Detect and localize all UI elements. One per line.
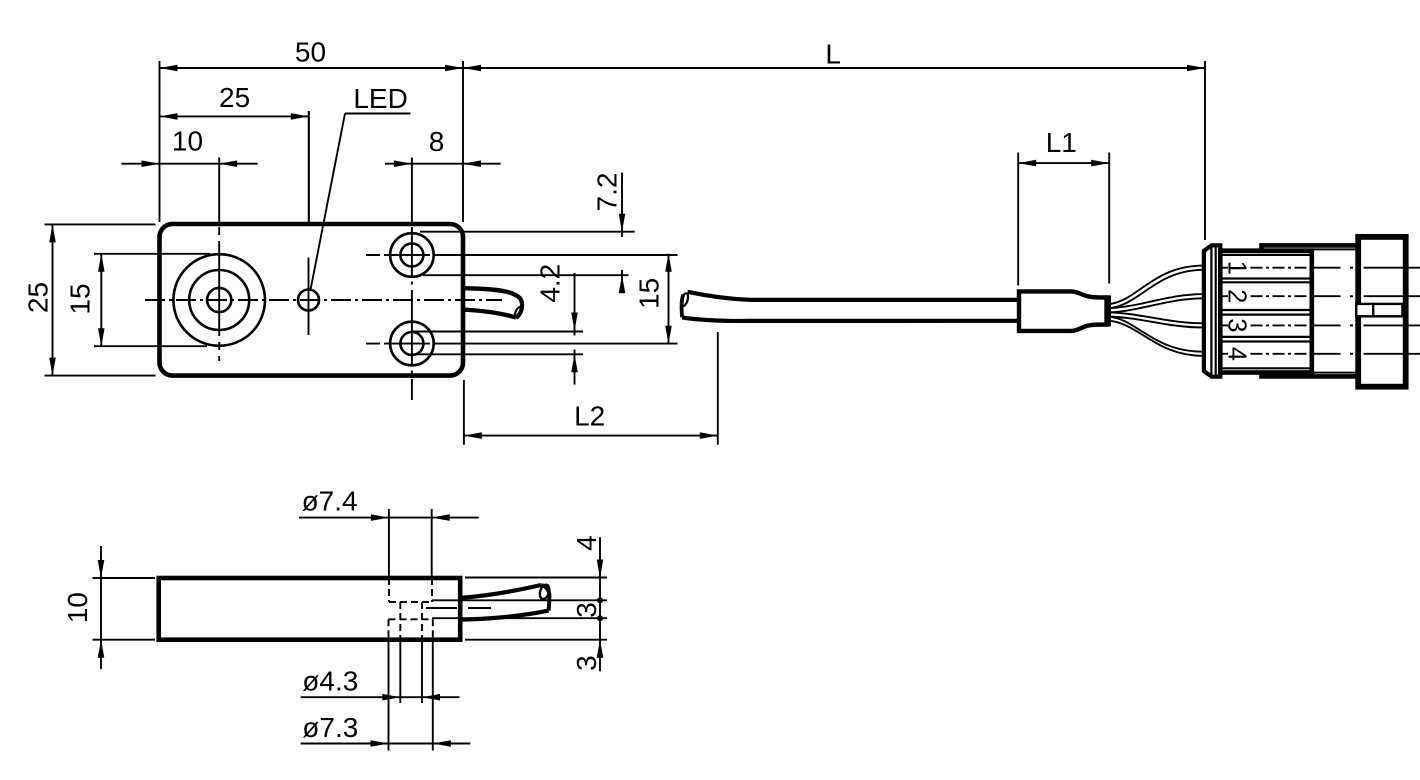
mid body top inner thin line (1263, 248, 1357, 250)
latch large rect (1373, 304, 1402, 316)
dimension 25 left (23, 224, 156, 375)
wire 4 (1108, 316, 1204, 351)
dimension 10 top (121, 126, 257, 167)
crimp ferrule body (1019, 291, 1107, 331)
cable left cut face ellipse (679, 292, 689, 307)
wire 2 (1108, 294, 1204, 308)
svg-text:ø7.3: ø7.3 (302, 712, 358, 743)
LED vertical centerline (308, 111, 310, 222)
extension line body right top (462, 61, 464, 222)
svg-text:L2: L2 (574, 401, 605, 432)
cable stub cut opening ellipse (514, 306, 524, 318)
svg-text:ø7.4: ø7.4 (302, 486, 358, 517)
hidden hole o4.3 left (399, 602, 401, 639)
pin separator 1b (1220, 281, 1311, 283)
pin 2 centerline (1222, 295, 1420, 297)
svg-text:L1: L1 (1046, 127, 1077, 158)
mid body bottom inner thin line (1312, 372, 1357, 374)
dimension 8 top (385, 126, 501, 167)
pin block top inner thin line (1220, 254, 1310, 256)
pin 1 centerline (1222, 267, 1420, 269)
dimension L1 (1018, 127, 1109, 285)
top hole lower tangent line (423, 274, 629, 276)
svg-text:10: 10 (62, 592, 93, 623)
side cable top edge (460, 585, 541, 598)
svg-text:ø4.3: ø4.3 (302, 666, 358, 697)
cable stub bottom edge (463, 310, 516, 318)
svg-text:8: 8 (429, 126, 445, 157)
svg-text:L: L (825, 38, 841, 69)
mounting hole top outer (390, 233, 434, 277)
hidden counterbore step upper (389, 601, 432, 603)
hidden hole o7.4 left (388, 578, 390, 602)
vertical centerline through holes (411, 158, 413, 223)
sensing face inner circle (207, 288, 231, 312)
top hole upper tangent line (420, 231, 635, 233)
svg-text:3: 3 (571, 655, 602, 671)
dimension L2 (464, 332, 718, 445)
cable top edge (688, 292, 1020, 300)
hidden hole o7.3 right (432, 619, 434, 639)
cable left cut face (682, 295, 684, 318)
pin block bottom inner thin line (1220, 367, 1310, 369)
svg-text:7.2: 7.2 (592, 173, 623, 212)
svg-text:2: 2 (1223, 289, 1251, 303)
dimension L (463, 38, 1205, 71)
flange inner line b (1215, 247, 1217, 376)
extension lines 4-3-3 (432, 578, 607, 640)
flange inner line a (1210, 247, 1212, 376)
side cable cut opening ellipse (538, 583, 551, 600)
dimension 15 right (634, 254, 672, 344)
outer housing (1358, 237, 1406, 387)
dimension o4.3 (301, 640, 460, 703)
sensing face outer circle (173, 254, 265, 346)
svg-text:50: 50 (295, 37, 326, 68)
pin separator 3a (1220, 336, 1311, 338)
pin separator 3b (1220, 340, 1311, 342)
wire 1 (1108, 266, 1204, 305)
dimension 50 (160, 37, 464, 72)
side cable bottom edge (460, 611, 549, 620)
extension line body left top (159, 61, 161, 222)
latch small rect (1356, 304, 1373, 316)
dimension 4 (571, 535, 603, 671)
side cable centerline (426, 607, 457, 609)
dimension 3 middle with dots (571, 597, 603, 621)
sensor body top view (160, 224, 464, 376)
sensor body side view (159, 578, 461, 640)
sensing face middle circle (189, 270, 249, 330)
top hole horizontal centerline (366, 254, 435, 256)
vertical centerline of sensing face (218, 158, 220, 223)
bottom hole lower tangent line (412, 353, 583, 355)
svg-text:15: 15 (634, 278, 665, 309)
hidden hole o7.4 right (431, 578, 433, 602)
svg-text:3: 3 (571, 602, 602, 618)
svg-text:15: 15 (65, 283, 96, 314)
svg-text:3: 3 (1223, 318, 1251, 332)
hidden hole o7.3 left (388, 619, 390, 639)
dimension 7.2 (592, 173, 626, 294)
LED circle (298, 290, 319, 311)
dimension 10 side (62, 546, 155, 669)
mounting hole top inner (400, 244, 423, 267)
pin insert block (1220, 251, 1312, 373)
connector mid body top (1262, 245, 1359, 250)
connector flange plate (1204, 245, 1220, 376)
svg-text:4: 4 (571, 535, 602, 551)
svg-text:LED: LED (353, 83, 407, 114)
main horizontal centerline (145, 299, 502, 301)
dimension o7.4 (299, 486, 479, 578)
svg-text:1: 1 (1223, 261, 1251, 275)
svg-text:4.2: 4.2 (535, 264, 566, 303)
ferrule end bar (1105, 295, 1111, 326)
svg-text:4: 4 (1223, 347, 1251, 361)
connector mid body bottom (1262, 373, 1359, 377)
dimension 15 left (65, 254, 211, 346)
side cable cut end (541, 585, 549, 611)
pin 3 centerline (1222, 324, 1420, 326)
pin separator 1a (1220, 277, 1311, 279)
bottom hole upper tangent line (412, 331, 583, 333)
svg-text:10: 10 (172, 126, 203, 157)
svg-text:25: 25 (219, 82, 250, 113)
extension line LED center (308, 111, 310, 222)
pin separator 2a (1220, 309, 1311, 311)
wire 3 (1108, 312, 1204, 323)
dimension 4.2 (535, 264, 578, 385)
bottom hole horizontal centerline (366, 343, 435, 345)
pin separator 2b (1220, 314, 1311, 316)
pin 4 centerline (1222, 353, 1420, 355)
hidden counterbore step lower (389, 618, 433, 620)
cable stub top edge (463, 288, 522, 317)
dimension 25 top (160, 82, 309, 120)
mounting hole bottom outer (390, 322, 434, 366)
LED label (311, 83, 411, 290)
svg-text:25: 25 (23, 282, 54, 313)
extension line connector (1204, 61, 1206, 240)
dimension o7.3 (301, 640, 471, 751)
mounting hole bottom inner (400, 332, 423, 355)
dimension 3 bottom (571, 640, 603, 671)
hidden hole o4.3 right (421, 602, 423, 639)
cable bottom edge (682, 317, 1019, 321)
